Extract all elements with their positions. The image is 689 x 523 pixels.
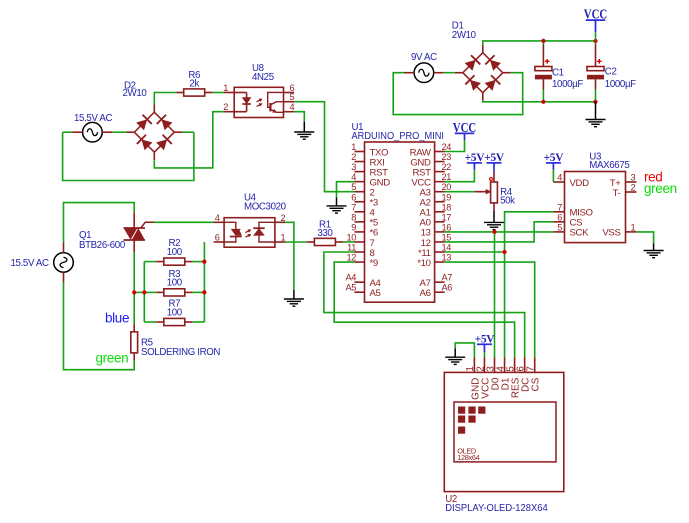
svg-text:*10: *10	[417, 258, 430, 269]
svg-text:11: 11	[347, 243, 356, 253]
svg-text:6: 6	[215, 233, 220, 243]
svg-text:+5V: +5V	[475, 333, 496, 345]
svg-text:+5V: +5V	[484, 152, 505, 164]
svg-text:BTB26-600: BTB26-600	[79, 240, 126, 251]
svg-text:100: 100	[167, 278, 183, 289]
svg-text:MOC3020: MOC3020	[244, 202, 287, 213]
svg-text:4: 4	[215, 213, 220, 223]
svg-text:2: 2	[223, 102, 228, 112]
svg-text:17: 17	[442, 212, 452, 222]
svg-text:*9: *9	[370, 258, 378, 269]
svg-text:C1: C1	[552, 67, 564, 78]
svg-text:24: 24	[442, 142, 452, 152]
svg-text:100: 100	[167, 247, 183, 258]
svg-text:5: 5	[557, 222, 562, 232]
svg-text:CS: CS	[531, 377, 542, 391]
svg-text:22: 22	[442, 162, 452, 172]
svg-text:VDD: VDD	[570, 178, 590, 189]
svg-text:20: 20	[442, 182, 452, 192]
svg-text:4: 4	[290, 102, 295, 112]
svg-text:330: 330	[317, 228, 333, 239]
svg-text:50k: 50k	[500, 195, 515, 206]
svg-text:4N25: 4N25	[252, 72, 274, 83]
svg-text:1000µF: 1000µF	[605, 79, 636, 90]
svg-text:green: green	[96, 350, 129, 365]
svg-text:DISPLAY-OLED-128X64: DISPLAY-OLED-128X64	[445, 503, 548, 514]
svg-text:10: 10	[346, 232, 356, 242]
svg-text:9: 9	[351, 222, 356, 232]
svg-text:2: 2	[281, 213, 286, 223]
svg-text:100: 100	[167, 307, 183, 318]
svg-text:VSS: VSS	[602, 228, 620, 239]
svg-text:1000µF: 1000µF	[552, 79, 583, 90]
svg-text:2k: 2k	[189, 79, 199, 90]
svg-text:19: 19	[442, 192, 452, 202]
svg-text:15.5V AC: 15.5V AC	[11, 258, 49, 269]
svg-text:15: 15	[442, 232, 452, 242]
svg-text:T-: T-	[613, 188, 621, 199]
svg-text:9V AC: 9V AC	[411, 52, 437, 63]
svg-text:16: 16	[442, 222, 452, 232]
svg-text:2W10: 2W10	[452, 30, 477, 41]
svg-text:3: 3	[351, 162, 356, 172]
svg-text:green: green	[644, 181, 677, 196]
svg-text:A4: A4	[345, 273, 356, 283]
svg-text:4: 4	[351, 172, 356, 182]
svg-text:4: 4	[557, 173, 562, 183]
svg-text:SCK: SCK	[570, 228, 590, 239]
svg-text:13: 13	[442, 253, 452, 263]
svg-text:SOLDERING IRON: SOLDERING IRON	[141, 347, 220, 358]
svg-text:2: 2	[631, 183, 636, 193]
svg-text:VCC: VCC	[453, 121, 477, 136]
svg-text:1: 1	[351, 142, 356, 152]
svg-text:VCC: VCC	[584, 8, 608, 23]
svg-text:A7: A7	[442, 273, 453, 283]
svg-text:1: 1	[281, 233, 286, 243]
svg-text:1: 1	[223, 83, 228, 93]
svg-text:7: 7	[526, 366, 537, 371]
svg-text:ARDUINO_PRO_MINI: ARDUINO_PRO_MINI	[352, 131, 445, 142]
svg-text:2W10: 2W10	[123, 88, 148, 99]
svg-text:+5V: +5V	[465, 152, 486, 164]
svg-text:A5: A5	[370, 288, 381, 299]
svg-text:6: 6	[351, 192, 356, 202]
svg-text:128x64: 128x64	[457, 453, 479, 462]
svg-text:MAX6675: MAX6675	[589, 160, 629, 171]
svg-text:blue: blue	[105, 310, 129, 325]
svg-text:+5V: +5V	[544, 152, 565, 164]
svg-text:A5: A5	[345, 283, 356, 293]
svg-text:2: 2	[351, 152, 356, 162]
svg-text:5: 5	[290, 92, 295, 102]
svg-text:7: 7	[351, 202, 356, 212]
svg-text:6: 6	[557, 212, 562, 222]
svg-text:23: 23	[442, 152, 452, 162]
svg-text:C2: C2	[605, 67, 617, 78]
svg-text:7: 7	[557, 202, 562, 212]
svg-text:A6: A6	[420, 288, 431, 299]
svg-text:21: 21	[442, 172, 452, 182]
svg-text:18: 18	[442, 202, 452, 212]
svg-text:3: 3	[631, 173, 636, 183]
svg-text:14: 14	[442, 243, 452, 253]
svg-text:8: 8	[351, 212, 356, 222]
svg-text:5: 5	[351, 182, 356, 192]
svg-text:12: 12	[346, 253, 356, 263]
svg-text:1: 1	[631, 222, 636, 232]
svg-text:A6: A6	[442, 283, 453, 293]
